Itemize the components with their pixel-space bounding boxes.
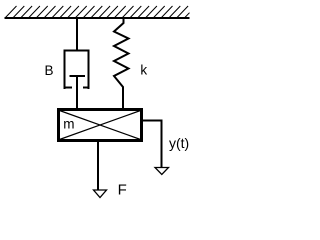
damper piston plate [70, 75, 86, 77]
mass diagonal TL-BR [60, 111, 141, 140]
mass diagonal BL-TR [60, 111, 141, 140]
svg-text:F: F [118, 182, 127, 199]
svg-text:B: B [45, 63, 54, 78]
wire to y(t) reference [143, 120, 163, 168]
force rod F [97, 142, 99, 190]
svg-text:m: m [63, 117, 74, 132]
damper top rod [76, 19, 78, 51]
spring k [114, 19, 129, 110]
damper cylinder bottom flanges [64, 87, 90, 89]
ceiling base line [5, 17, 190, 19]
force arrowhead F [94, 190, 107, 198]
svg-text:y(t): y(t) [169, 135, 189, 151]
ceiling hatching [5, 6, 190, 18]
damper piston rod [76, 77, 78, 109]
y(t) reference arrowhead [155, 168, 169, 175]
mass block m [59, 110, 142, 141]
damper cylinder B [65, 51, 89, 90]
svg-text:k: k [140, 63, 147, 78]
